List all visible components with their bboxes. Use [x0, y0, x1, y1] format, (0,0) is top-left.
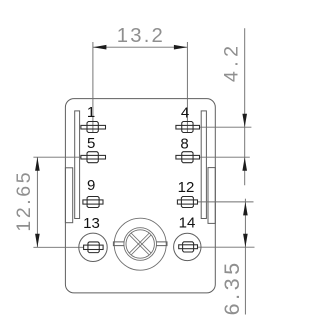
svg-text:1: 1 [87, 104, 95, 121]
dimension line 13.2 [93, 46, 187, 48]
left wall rib [65, 168, 72, 223]
extension line row3 right [197, 201, 253, 203]
pin 4 terminal [176, 122, 200, 133]
svg-text:4.2: 4.2 [221, 41, 243, 82]
svg-text:14: 14 [179, 215, 196, 232]
arrow up (outside below row2) [242, 157, 247, 171]
cross recess X [129, 233, 150, 254]
right wall rib [208, 168, 215, 224]
right tab [156, 242, 167, 246]
extension line row2 left [33, 156, 80, 158]
pin 9 terminal [83, 197, 103, 208]
dimension line 12.65 [36, 157, 38, 247]
pin 5 terminal [81, 152, 106, 163]
left rail slot [75, 111, 80, 219]
svg-text:13: 13 [83, 215, 100, 232]
svg-text:8: 8 [180, 136, 188, 153]
extension line pin1 column [92, 42, 94, 133]
svg-text:5: 5 [87, 135, 95, 152]
arrow down (inside bottom) [243, 234, 248, 248]
extension line row4 left [33, 246, 83, 248]
arrow right [174, 45, 188, 50]
dimension line 6.35 [244, 199, 246, 315]
dimension 4.2 (right top) [200, 28, 252, 185]
svg-text:6.35: 6.35 [220, 259, 244, 315]
pin 8 terminal [176, 152, 200, 163]
arrow left [93, 45, 107, 50]
body outline [65, 99, 215, 293]
left tab [113, 242, 124, 246]
arrow up (inside top) [243, 202, 248, 216]
dimension 12.65 (left) [13, 157, 84, 247]
svg-text:12: 12 [178, 179, 195, 196]
extension line row2 [200, 156, 250, 158]
extension line pin4 column [186, 42, 188, 133]
pin number labels [83, 104, 195, 232]
extension line row1 [200, 126, 252, 128]
svg-text:13.2: 13.2 [117, 25, 165, 47]
svg-text:12.65: 12.65 [13, 170, 35, 232]
dimension line 4.2 [244, 28, 246, 185]
extension line row4 right [198, 246, 255, 248]
svg-text:9: 9 [87, 177, 95, 194]
pin 14 screw terminal [174, 233, 201, 260]
pin 13 screw terminal [79, 233, 107, 261]
dimension 13.2 (top) [93, 25, 187, 133]
center mounting post [113, 218, 167, 270]
arrow up (inside top) [35, 157, 40, 171]
arrow down (outside above row1) [242, 114, 247, 128]
right rail slot [201, 111, 206, 219]
pin 12 terminal [177, 197, 197, 208]
pin 1 terminal [81, 122, 106, 133]
arrow down (inside bottom) [35, 234, 40, 248]
dimension 6.35 (right bottom) [197, 199, 254, 316]
svg-text:4: 4 [181, 105, 189, 122]
